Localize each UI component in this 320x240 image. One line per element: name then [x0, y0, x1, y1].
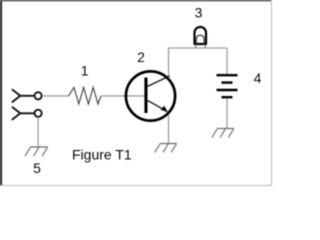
svg-text:1: 1: [81, 62, 89, 78]
ground (input, item 5): [25, 147, 47, 156]
svg-text:Figure T1: Figure T1: [72, 147, 132, 163]
resistor (item 1): [69, 87, 102, 104]
connector bottom (input terminal): [13, 107, 42, 119]
wire: battery down to ground: [226, 98, 228, 128]
connector top (input terminal): [13, 90, 42, 102]
lamp (item 3): [195, 27, 207, 48]
wire: collector up to top rail: [168, 48, 170, 77]
wire: top rail under lamp: [169, 47, 228, 49]
svg-text:3: 3: [195, 4, 203, 20]
wire: top rail down to battery: [226, 48, 228, 74]
wire: emitter down to ground: [168, 115, 170, 144]
ground (emitter): [155, 144, 177, 153]
wire: top connector to resistor: [42, 95, 69, 97]
ground (battery): [212, 129, 234, 138]
wire: bottom connector down to input ground: [37, 117, 39, 147]
transistor (item 2) NPN in circle: [126, 71, 175, 120]
svg-text:5: 5: [33, 160, 41, 176]
wire: resistor to transistor base: [101, 95, 145, 97]
svg-text:2: 2: [137, 49, 145, 65]
battery (item 4): [217, 75, 238, 97]
svg-text:4: 4: [254, 70, 262, 86]
